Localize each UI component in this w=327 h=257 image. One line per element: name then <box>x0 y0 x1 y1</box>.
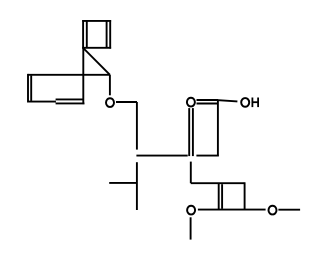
bond down to methyl <box>136 162 138 210</box>
atom label O3 methoxy <box>187 206 195 215</box>
bond O1 to CH2 <box>116 101 137 103</box>
dimethoxy ring left edge <box>218 183 220 209</box>
cyclobutadiene ring right edge <box>109 20 111 49</box>
cyclobutadiene ring bottom edge <box>82 47 111 49</box>
O=C double bond horizontal line a <box>197 99 219 101</box>
ring bottom double bond lower line <box>56 102 85 104</box>
cyclobutene ring top edge and bond to vertex <box>28 74 110 76</box>
bond C to OH <box>218 100 237 101</box>
bond carboxyl C down <box>217 100 219 156</box>
double bond inner line dimethoxy ring <box>221 184 223 209</box>
atom label O4 methoxy <box>269 206 277 215</box>
cyclobutadiene ring left edge <box>82 20 84 49</box>
atom label OH hydroxyl O <box>241 98 249 107</box>
bond to dimethoxy ring top edge <box>191 182 245 184</box>
O=C double bond horizontal line b <box>197 103 218 105</box>
C=O double bond vertical line b <box>192 108 194 156</box>
cyclobutene ring left edge <box>27 74 29 103</box>
double bond inner line right <box>106 21 108 47</box>
bond from square corner down through ring right edge <box>82 48 84 104</box>
double bond inner line left ring <box>30 76 32 101</box>
bond right of junction <box>196 155 218 157</box>
double bond inner line left <box>86 21 88 47</box>
bond vertex to ether O1 <box>109 75 111 96</box>
atom label OH hydroxyl H <box>252 98 258 108</box>
bond CH2 down <box>136 102 138 150</box>
bond O3 down to methyl <box>190 217 192 239</box>
cyclobutene ring bottom single bond <box>28 101 56 103</box>
methyl branch left <box>109 182 137 184</box>
atom label O1 ether <box>106 98 114 107</box>
cyclobutadiene ring top edge <box>82 20 111 22</box>
diagonal bond square corner to vertex <box>83 48 110 75</box>
ring bottom bond through both O links <box>198 209 266 211</box>
dimethoxy ring right edge <box>244 182 246 210</box>
bond across to carbonyl carbon <box>136 155 187 157</box>
C=O double bond vertical line a <box>188 108 190 156</box>
atom label O2 carbonyl <box>187 98 195 107</box>
bond junction down <box>190 162 192 184</box>
bond O4 to methyl <box>278 209 300 211</box>
ring bottom double bond upper line <box>56 98 84 100</box>
